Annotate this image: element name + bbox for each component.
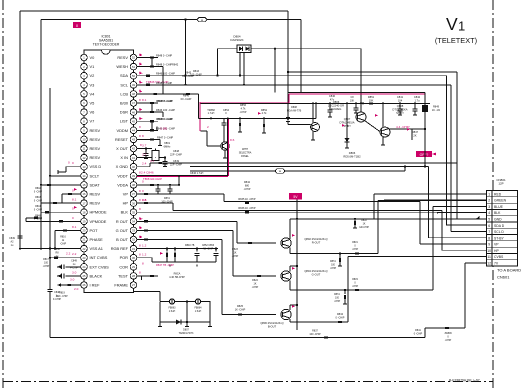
svg-text:R OUT: R OUT <box>116 219 129 224</box>
svg-text:8.6: 8.6 <box>230 138 235 142</box>
wire Q808 emitter <box>382 137 384 146</box>
stub jog B/30-DSR <box>151 103 153 112</box>
wire Q804 emitter <box>289 319 291 322</box>
svg-text:8.1: 8.1 <box>142 98 147 102</box>
svg-text:RESV: RESV <box>90 146 101 151</box>
resistor R836 <box>245 211 249 213</box>
transistor Q804 <box>281 309 291 319</box>
svg-text:TA8019-H073: TA8019-H073 <box>179 332 194 335</box>
net VSS A1 <box>20 248 80 250</box>
svg-text:GREEN: GREEN <box>494 199 507 203</box>
svg-text:5V: 5V <box>293 195 298 199</box>
jumper JW801 <box>197 17 207 21</box>
svg-text:V1: V1 <box>90 64 95 69</box>
svg-text:7: 7 <box>488 230 490 234</box>
svg-text:100: 100 <box>44 262 49 265</box>
svg-text:RD5.6M-T1B2: RD5.6M-T1B2 <box>343 154 361 158</box>
svg-text:TEST: TEST <box>118 273 129 278</box>
svg-text:Q806 2SC2412K-Q: Q806 2SC2412K-Q <box>260 321 283 325</box>
svg-text:00 -CHIP: 00 -CHIP <box>181 97 192 101</box>
crystal cap C849 <box>164 158 166 162</box>
svg-text:-CHIP: -CHIP <box>244 188 251 191</box>
svg-text:3.7: 3.7 <box>150 159 155 163</box>
svg-text:V4: V4 <box>90 91 96 96</box>
cap on x50 <box>47 289 52 291</box>
svg-text:R848 0 -CHIP: R848 0 -CHIP <box>156 81 172 85</box>
svg-text:VDDA: VDDA <box>117 182 128 187</box>
svg-text:0 -CHIP: 0 -CHIP <box>34 191 43 193</box>
svg-text:47u: 47u <box>330 97 335 101</box>
net I REF <box>61 284 80 286</box>
svg-text:2 (M): 2 (M) <box>160 126 167 130</box>
svg-text:POT: POT <box>90 228 99 233</box>
transistor Q802 <box>281 238 291 248</box>
pulldown R871 <box>339 254 341 258</box>
net 5V top (magenta) <box>289 92 425 94</box>
crystal cap C848 <box>145 149 147 154</box>
net GND top <box>288 71 457 73</box>
net 7V <box>465 262 487 264</box>
wire x288 down <box>287 11 289 117</box>
net X OUT <box>137 148 152 150</box>
svg-text:VDDT: VDDT <box>117 173 128 178</box>
cap C850 <box>157 185 159 189</box>
svg-text:R842: R842 <box>35 188 41 190</box>
wire top outer rail <box>20 10 288 12</box>
net mid rail <box>199 117 317 119</box>
svg-text:9: 9 <box>488 243 490 247</box>
svg-text:BLK: BLK <box>121 210 129 215</box>
svg-text:BLK: BLK <box>494 211 501 215</box>
svg-text:Q804 2SC2412K-Q: Q804 2SC2412K-Q <box>304 269 327 273</box>
svg-text:C850: C850 <box>54 248 60 251</box>
inductor L801 <box>169 299 174 304</box>
svg-text:SDA D: SDA D <box>494 224 505 228</box>
page border left (dash-dot) <box>2 0 4 388</box>
net SDAT <box>41 184 80 186</box>
svg-text:VDDM: VDDM <box>117 128 128 133</box>
svg-text:R831: R831 <box>352 242 358 244</box>
net TEST hook <box>137 275 142 277</box>
svg-text:R842: R842 <box>172 63 179 67</box>
wire x301 down <box>300 20 302 93</box>
svg-text:G-OUT: G-OUT <box>312 272 321 276</box>
svg-text:COR: COR <box>119 264 128 269</box>
page border bottom (dash-dot) <box>3 381 493 383</box>
svg-text:-CHIP: -CHIP <box>352 249 359 251</box>
svg-text:11: 11 <box>487 255 491 259</box>
net BLK <box>137 211 438 213</box>
svg-text:D806: D806 <box>349 151 356 155</box>
cap C851 <box>355 103 357 108</box>
svg-text:F-CHIP: F-CHIP <box>53 298 61 301</box>
resistor R826 <box>354 219 356 220</box>
svg-text:3.0: 3.0 <box>70 278 75 282</box>
svg-text:8: 8 <box>139 98 141 102</box>
svg-text:RESET: RESET <box>115 137 129 142</box>
wire DSR ext <box>152 111 163 113</box>
net LCB <box>137 93 199 95</box>
svg-text:-CHIP: -CHIP <box>445 339 452 342</box>
svg-text:R845 8 -CHIP: R845 8 -CHIP <box>157 99 173 103</box>
resistor R835 <box>245 202 249 204</box>
svg-text:C842: C842 <box>414 95 421 99</box>
wire x198 down <box>198 94 200 119</box>
bottom resistor R838 <box>324 336 328 338</box>
transistor Q807 <box>356 112 366 122</box>
svg-text:RESV: RESV <box>90 128 101 133</box>
pulldown R872 <box>344 290 346 294</box>
svg-text:0: 0 <box>72 216 74 220</box>
svg-text:100 -CHIP: 100 -CHIP <box>309 333 321 336</box>
wire x185 from top rail <box>185 20 187 85</box>
resistor R859 v <box>263 118 265 123</box>
svg-text:GR-CHIP: GR-CHIP <box>359 227 369 229</box>
op-amp-chip IC801 body <box>84 50 134 293</box>
wire Q802 emitter <box>289 248 291 254</box>
svg-text:1K -CHIP: 1K -CHIP <box>235 308 246 311</box>
resistor R825 <box>238 313 242 315</box>
right pin chip resistors <box>137 57 158 59</box>
svg-text:RED: RED <box>494 192 502 196</box>
stub jog LIST-VDDM <box>151 121 153 130</box>
svg-text:8: 8 <box>139 207 141 211</box>
svg-text:1.5uH: 1.5uH <box>169 310 176 313</box>
cap C841 <box>399 103 401 109</box>
svg-text:RGA AM-T7B: RGA AM-T7B <box>287 109 302 112</box>
diode D802 <box>176 320 181 325</box>
svg-text:R848 0 -CHIP: R848 0 -CHIP <box>156 63 172 67</box>
wire WESH ext <box>152 66 163 68</box>
svg-text:2.2: 2.2 <box>66 252 71 256</box>
svg-text:R833: R833 <box>352 279 358 281</box>
svg-text:C840: C840 <box>329 94 336 98</box>
net POR <box>137 257 152 259</box>
svg-text:B OUT: B OUT <box>116 237 129 242</box>
reg rail dots <box>312 102 314 104</box>
wire x217 to SDA <box>217 49 219 76</box>
filter loop <box>160 302 210 323</box>
resistor R851 <box>369 102 373 104</box>
svg-text:FRAME: FRAME <box>114 283 128 288</box>
svg-text:R851: R851 <box>368 95 375 99</box>
svg-text:R847 0 -CHIP: R847 0 -CHIP <box>157 135 173 139</box>
svg-text:R848 0 -CHIP: R848 0 -CHIP <box>156 54 172 58</box>
svg-text:R-OUT: R-OUT <box>312 240 321 244</box>
svg-text:LIST: LIST <box>120 119 129 124</box>
svg-text:-CHIP: -CHIP <box>334 301 341 303</box>
net X GND <box>137 166 150 168</box>
wire D804 drop SDA <box>239 53 241 76</box>
svg-text:SCLT: SCLT <box>90 173 100 178</box>
svg-text:BLACK: BLACK <box>90 273 103 278</box>
resistor R823 <box>248 242 252 244</box>
net HP <box>144 202 148 204</box>
svg-text:8: 8 <box>142 134 144 138</box>
svg-text:-CHIP: -CHIP <box>43 265 50 268</box>
cap C842 <box>414 103 416 109</box>
net BLACK <box>66 275 81 277</box>
svg-text:RESV: RESV <box>90 192 101 197</box>
svg-text:6: 6 <box>488 224 490 228</box>
svg-text:AB -CHIP: AB -CHIP <box>203 247 214 250</box>
svg-text:-CHIP: -CHIP <box>252 286 259 289</box>
svg-text:VPMODE: VPMODE <box>90 219 107 224</box>
svg-text:R844: R844 <box>35 206 41 208</box>
svg-text:V2: V2 <box>90 73 95 78</box>
svg-text:R87A: R87A <box>334 293 340 296</box>
svg-text:R842: R842 <box>244 181 251 184</box>
svg-text:B-OUT: B-OUT <box>268 324 277 328</box>
svg-text:(TELETEXT): (TELETEXT) <box>435 36 477 45</box>
svg-text:SDAT: SDAT <box>90 182 101 187</box>
cap C806 <box>17 235 22 237</box>
wire RESET ext <box>152 138 160 140</box>
svg-text:8: 8 <box>139 253 141 257</box>
svg-text:INT CVBS: INT CVBS <box>90 255 108 260</box>
svg-text:2.2: 2.2 <box>72 252 77 256</box>
wire Q810 base <box>200 130 207 132</box>
svg-text:R87A: R87A <box>330 260 336 263</box>
svg-text:0 -CHIP: 0 -CHIP <box>336 316 345 319</box>
net FRAME <box>133 289 135 292</box>
svg-text:R817: R817 <box>43 258 49 261</box>
svg-text:12: 12 <box>487 261 491 265</box>
svg-text:0: 0 <box>68 161 70 165</box>
svg-text:2.7: 2.7 <box>142 152 147 156</box>
svg-text:1K: 1K <box>234 252 237 255</box>
wire Q808 collector right <box>389 128 425 130</box>
inductor L802 <box>195 299 200 304</box>
wire Q808 top <box>382 103 384 127</box>
wire outer rail left <box>19 11 21 238</box>
svg-text:2.4 C846: 2.4 C846 <box>141 170 154 174</box>
svg-text:4.7k: 4.7k <box>262 112 267 115</box>
svg-text:R836 1K -CHIP: R836 1K -CHIP <box>238 207 256 210</box>
connector row stubs <box>374 193 487 195</box>
svg-text:-CHIP: -CHIP <box>240 111 247 114</box>
svg-text:-CHIP: -CHIP <box>330 268 337 270</box>
rgbref parts <box>166 248 168 250</box>
wire Q803 collector <box>289 266 291 272</box>
svg-text:SCL: SCL <box>120 82 128 87</box>
svg-text:HP: HP <box>494 249 499 253</box>
svg-text:C841: C841 <box>397 95 404 99</box>
svg-text:RESV: RESV <box>90 155 101 160</box>
svg-text:Q802 2SC2412K-Q: Q802 2SC2412K-Q <box>304 237 327 241</box>
svg-text:R847 TB -CHIP: R847 TB -CHIP <box>156 263 174 267</box>
svg-text:6MHz: 6MHz <box>164 144 171 148</box>
filter stubs <box>159 322 161 326</box>
svg-text:C849: C849 <box>71 260 77 263</box>
svg-text:8.1: 8.1 <box>72 198 77 202</box>
transistor Q810 <box>221 142 229 150</box>
wire Q804 collector <box>289 305 291 310</box>
svg-text:22P -CHIP: 22P -CHIP <box>170 163 182 166</box>
diode D806 <box>346 103 348 138</box>
svg-text:R846 100 -CHIP: R846 100 -CHIP <box>156 108 175 112</box>
svg-text:BLUE: BLUE <box>494 205 504 209</box>
net B OUT <box>144 238 148 240</box>
transistor Q808 <box>380 127 390 137</box>
svg-text:V: V <box>446 14 458 34</box>
svg-text:VP: VP <box>123 192 129 197</box>
wire Q807 top <box>360 102 362 104</box>
cluster resistors <box>62 193 80 195</box>
svg-text:R840 7B: R840 7B <box>185 244 195 247</box>
wire D804 drop SCL <box>243 53 245 85</box>
wire reg rail <box>200 102 430 104</box>
magenta ON box <box>73 22 81 28</box>
svg-text:7V: 7V <box>494 261 499 265</box>
svg-text:R848: R848 <box>35 215 41 217</box>
resistor R829 <box>338 321 342 323</box>
svg-text:V5: V5 <box>90 101 95 106</box>
svg-text:0 -CHIP: 0 -CHIP <box>34 201 43 203</box>
resistor R824 <box>257 275 261 277</box>
magenta arrows right pins <box>140 54 143 57</box>
svg-text:T868 GR-CHIP: T868 GR-CHIP <box>143 177 162 181</box>
svg-text:R824: R824 <box>252 279 258 282</box>
svg-text:PANEL: PANEL <box>241 155 249 158</box>
svg-text:1.5uH: 1.5uH <box>195 310 202 313</box>
svg-text:DSR: DSR <box>120 110 128 115</box>
wire VDDM ext <box>152 129 157 131</box>
svg-text:R816: R816 <box>60 236 66 238</box>
svg-text:3: 3 <box>488 205 490 209</box>
wire x361 to Q807 <box>360 49 362 113</box>
stub jog RESV-WESH <box>151 58 153 67</box>
SDA pullup R <box>146 75 150 77</box>
svg-text:4.7k: 4.7k <box>241 108 246 111</box>
magenta OFF box <box>416 151 432 157</box>
svg-text:R835 1K -CHIP: R835 1K -CHIP <box>238 198 256 201</box>
net EXT CVBS <box>66 266 81 268</box>
svg-text:104: 104 <box>398 98 403 102</box>
svg-text:BLK -CHIP: BLK -CHIP <box>56 296 68 298</box>
net G OUT <box>144 229 148 231</box>
svg-text:1K -1%: 1K -1% <box>432 109 441 112</box>
svg-text:2: 2 <box>207 125 209 129</box>
svg-text:1.7uH: 1.7uH <box>208 112 215 115</box>
svg-text:8: 8 <box>142 262 144 266</box>
svg-text:X GND: X GND <box>116 164 129 169</box>
magenta arrows out pins <box>258 112 261 115</box>
svg-text:R843: R843 <box>35 197 41 199</box>
svg-text:8: 8 <box>139 189 141 193</box>
net SDA <box>137 75 447 77</box>
svg-text:8: 8 <box>139 243 141 247</box>
svg-text:100 -CHIP: 100 -CHIP <box>190 73 202 76</box>
svg-text:DAP202K: DAP202K <box>230 38 243 42</box>
net BLUE <box>432 207 434 290</box>
svg-text:1.2: 1.2 <box>142 243 147 247</box>
magenta 5V box <box>289 193 302 199</box>
svg-text:RGB REF: RGB REF <box>111 246 129 251</box>
svg-text:2.4: 2.4 <box>142 162 147 166</box>
svg-text:8: 8 <box>139 125 141 129</box>
svg-text:8.1: 8.1 <box>72 225 77 229</box>
svg-text:R846 100 -CHIP: R846 100 -CHIP <box>156 72 175 76</box>
svg-text:1: 1 <box>488 192 490 196</box>
svg-text:PHASE: PHASE <box>90 237 104 242</box>
svg-text:C846 1.7uH: C846 1.7uH <box>190 172 204 175</box>
svg-text:5: 5 <box>488 218 490 222</box>
svg-text:V6: V6 <box>90 110 95 115</box>
svg-text:0: 0 <box>72 189 74 193</box>
svg-text:R856: R856 <box>240 104 247 107</box>
svg-text:4: 4 <box>488 211 490 215</box>
svg-text:100 -CHIP: 100 -CHIP <box>161 201 173 204</box>
svg-text:RESV: RESV <box>117 55 128 60</box>
transistor Q806 <box>311 123 320 132</box>
net CVBS <box>347 257 349 322</box>
svg-text:RESV: RESV <box>90 201 101 206</box>
svg-text:RESV: RESV <box>90 137 101 142</box>
wire x275 down <box>274 49 276 93</box>
svg-text:1: 1 <box>458 19 465 34</box>
svg-text:R846 0 -CHIP: R846 0 -CHIP <box>157 117 173 121</box>
svg-text:0 -CHIP: 0 -CHIP <box>34 219 43 221</box>
svg-text:2K: 2K <box>413 133 416 137</box>
net VSS D <box>66 166 80 168</box>
svg-text:WITH: WITH <box>242 148 248 151</box>
svg-text:B-F33879H BE.>-97.: B-F33879H BE.>-97. <box>449 379 481 383</box>
resistor R827 <box>355 252 359 254</box>
svg-text:CN601: CN601 <box>497 275 510 280</box>
svg-text:VSS D: VSS D <box>90 164 102 169</box>
svg-text:C849: C849 <box>9 237 15 240</box>
net GREEN <box>377 200 379 253</box>
net R OUT <box>144 220 148 222</box>
connector CN801 <box>487 191 518 266</box>
wire bottom main rail <box>50 337 425 339</box>
svg-text:0: 0 <box>142 189 144 193</box>
net VP <box>144 193 148 195</box>
transistor Q803 <box>281 271 291 281</box>
svg-text:1.2: 1.2 <box>142 253 147 257</box>
svg-text:0.6: 0.6 <box>142 198 147 202</box>
wire Q803 emitter <box>289 281 291 291</box>
wire Q810 emitter <box>224 150 226 158</box>
wire inner top rail <box>41 19 301 21</box>
resistor R828 <box>355 289 359 291</box>
svg-text:VSS A1: VSS A1 <box>90 246 103 251</box>
wire Q806 base <box>288 124 311 126</box>
svg-text:V7: V7 <box>90 119 95 124</box>
svg-text:V3: V3 <box>90 82 95 87</box>
svg-text:SCL D: SCL D <box>494 230 504 234</box>
svg-text:22P -CHIP: 22P -CHIP <box>170 153 182 156</box>
rgbref gnd rail <box>152 261 216 263</box>
svg-text:0: 0 <box>72 207 74 211</box>
svg-text:ST-BY: ST-BY <box>494 236 505 240</box>
svg-text:R832: R832 <box>361 220 367 222</box>
net RGB REF <box>137 248 218 250</box>
crystal X801 <box>152 151 159 161</box>
svg-text:X801: X801 <box>164 141 171 145</box>
svg-text:AM-REG: AM-REG <box>331 107 342 111</box>
svg-text:3.7: 3.7 <box>142 143 147 147</box>
net X IN <box>137 157 152 159</box>
gnd mark row5 <box>478 218 481 220</box>
svg-text:LCB: LCB <box>120 91 128 96</box>
svg-text:0: 0 <box>142 180 144 184</box>
wire left vertical to bottom <box>49 88 51 290</box>
svg-text:3.0: 3.0 <box>72 270 77 274</box>
svg-text:EXT CVBS: EXT CVBS <box>90 264 110 269</box>
wire Q806 top <box>312 103 314 122</box>
